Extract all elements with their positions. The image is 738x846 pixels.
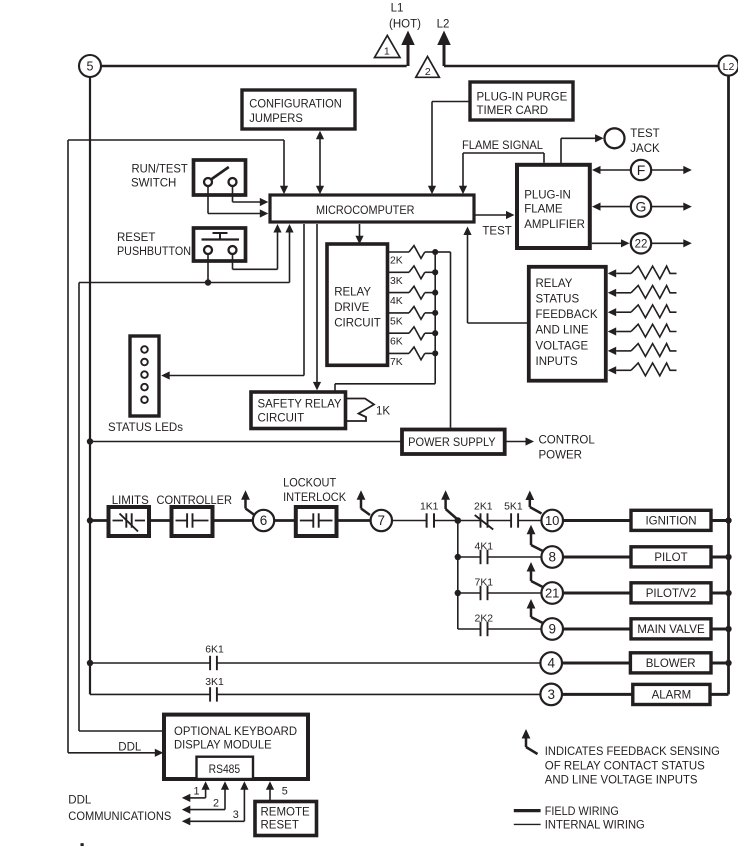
svg-text:2: 2	[425, 66, 431, 78]
svg-text:2: 2	[213, 797, 219, 809]
svg-text:21: 21	[545, 586, 559, 601]
svg-text:5K1: 5K1	[504, 501, 523, 512]
svg-text:6K: 6K	[390, 337, 403, 348]
svg-text:MICROCOMPUTER: MICROCOMPUTER	[316, 203, 415, 217]
svg-text:L2: L2	[437, 19, 450, 31]
svg-text:2K: 2K	[390, 256, 403, 267]
svg-text:CIRCUIT: CIRCUIT	[334, 318, 381, 330]
svg-text:AND LINE VOLTAGE INPUTS: AND LINE VOLTAGE INPUTS	[545, 775, 698, 787]
svg-text:4K1: 4K1	[475, 542, 494, 553]
svg-text:DDL: DDL	[118, 741, 142, 753]
svg-text:5K: 5K	[390, 316, 403, 327]
svg-text:PLUG-IN PURGE: PLUG-IN PURGE	[477, 91, 568, 103]
svg-text:1: 1	[384, 46, 390, 58]
svg-text:CONTROLLER: CONTROLLER	[157, 495, 233, 507]
svg-text:10: 10	[545, 513, 559, 528]
svg-text:3: 3	[547, 687, 555, 702]
svg-text:3K: 3K	[390, 276, 403, 287]
svg-text:FIELD WIRING: FIELD WIRING	[545, 806, 619, 818]
svg-text:PUSHBUTTON: PUSHBUTTON	[117, 246, 191, 258]
svg-text:SAFETY RELAY: SAFETY RELAY	[258, 399, 342, 411]
svg-text:FLAME SIGNAL: FLAME SIGNAL	[462, 140, 544, 152]
svg-text:4: 4	[547, 656, 555, 671]
svg-text:4K: 4K	[390, 296, 403, 307]
svg-text:PILOT: PILOT	[654, 552, 687, 564]
svg-text:JUMPERS: JUMPERS	[249, 113, 303, 125]
svg-text:TEST: TEST	[630, 128, 659, 140]
svg-text:SWITCH: SWITCH	[131, 177, 176, 189]
svg-text:OPTIONAL KEYBOARD: OPTIONAL KEYBOARD	[174, 726, 297, 738]
svg-text:STATUS LEDs: STATUS LEDs	[108, 422, 183, 434]
svg-text:DISPLAY MODULE: DISPLAY MODULE	[174, 739, 272, 751]
svg-text:3K1: 3K1	[205, 677, 224, 688]
svg-text:INTERLOCK: INTERLOCK	[283, 492, 346, 504]
svg-text:22: 22	[635, 239, 648, 251]
svg-text:7K1: 7K1	[475, 578, 494, 589]
svg-text:POWER: POWER	[539, 449, 582, 461]
svg-text:DRIVE: DRIVE	[334, 302, 369, 314]
svg-text:COMMUNICATIONS: COMMUNICATIONS	[68, 811, 171, 823]
svg-text:2K1: 2K1	[474, 501, 493, 512]
svg-text:FEEDBACK: FEEDBACK	[536, 309, 598, 321]
svg-text:INPUTS: INPUTS	[536, 356, 579, 368]
svg-text:3: 3	[233, 809, 239, 821]
svg-text:BLOWER: BLOWER	[646, 658, 696, 670]
svg-text:REMOTE: REMOTE	[261, 807, 311, 819]
svg-text:LIMITS: LIMITS	[112, 495, 149, 507]
svg-text:CONFIGURATION: CONFIGURATION	[249, 99, 341, 111]
svg-text:AND LINE: AND LINE	[536, 325, 589, 337]
svg-text:L1: L1	[391, 2, 404, 14]
svg-text:L2: L2	[723, 61, 735, 73]
svg-text:IGNITION: IGNITION	[645, 516, 696, 528]
svg-text:RESET: RESET	[117, 232, 155, 244]
svg-text:FLAME: FLAME	[524, 204, 563, 216]
svg-text:7K: 7K	[390, 357, 403, 368]
svg-text:DDL: DDL	[68, 795, 92, 807]
svg-text:RS485: RS485	[209, 764, 241, 776]
svg-text:INDICATES FEEDBACK SENSING: INDICATES FEEDBACK SENSING	[545, 746, 720, 758]
svg-text:PILOT/V2: PILOT/V2	[646, 588, 697, 600]
svg-text:JACK: JACK	[630, 143, 660, 155]
svg-text:TIMER CARD: TIMER CARD	[477, 105, 549, 117]
svg-text:F: F	[637, 162, 646, 178]
svg-text:7: 7	[378, 513, 386, 528]
svg-text:RELAY: RELAY	[334, 287, 371, 299]
svg-text:CONTROL: CONTROL	[539, 434, 596, 446]
svg-text:6: 6	[260, 513, 268, 528]
svg-text:TEST: TEST	[482, 226, 511, 238]
svg-text:RELAY: RELAY	[536, 278, 573, 290]
svg-text:1K1: 1K1	[420, 501, 439, 512]
svg-text:CIRCUIT: CIRCUIT	[258, 412, 305, 424]
svg-text:VOLTAGE: VOLTAGE	[536, 340, 589, 352]
svg-text:LOCKOUT: LOCKOUT	[283, 477, 336, 489]
svg-text:ALARM: ALARM	[652, 690, 692, 702]
svg-text:STATUS: STATUS	[536, 293, 580, 305]
svg-text:(HOT): (HOT)	[389, 19, 421, 31]
svg-text:5: 5	[87, 60, 94, 74]
svg-text:AMPLIFIER: AMPLIFIER	[524, 219, 585, 231]
svg-text:5: 5	[282, 786, 288, 798]
svg-text:PLUG-IN: PLUG-IN	[524, 189, 571, 201]
svg-text:9: 9	[548, 622, 556, 637]
svg-text:2K2: 2K2	[475, 613, 494, 624]
svg-text:MAIN VALVE: MAIN VALVE	[637, 624, 705, 636]
svg-text:RUN/TEST: RUN/TEST	[132, 163, 188, 175]
svg-text:1K: 1K	[376, 406, 390, 418]
svg-text:POWER SUPPLY: POWER SUPPLY	[408, 437, 496, 449]
svg-text:6K1: 6K1	[205, 644, 224, 655]
svg-text:RESET: RESET	[261, 820, 299, 832]
svg-text:G: G	[636, 199, 647, 215]
svg-text:1: 1	[193, 786, 199, 798]
svg-text:OF RELAY CONTACT STATUS: OF RELAY CONTACT STATUS	[545, 760, 705, 772]
svg-text:INTERNAL WIRING: INTERNAL WIRING	[545, 820, 645, 832]
svg-text:8: 8	[548, 550, 556, 565]
